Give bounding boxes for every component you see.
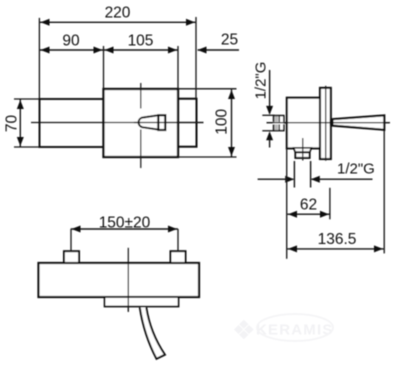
center line through handle	[333, 122, 390, 124]
watermark logo diamonds	[234, 320, 254, 339]
dimension 220 line	[39, 21, 196, 23]
arrow down at connector top	[266, 106, 273, 115]
outlet extension line left	[293, 161, 295, 188]
left nut	[64, 251, 79, 264]
extension line body-left down	[286, 149, 288, 259]
spout rect	[40, 99, 104, 147]
dimension 90 line	[39, 49, 103, 51]
connector top extension line	[262, 114, 274, 116]
arrow 100 top	[228, 90, 235, 99]
arrow 150 right	[168, 226, 177, 233]
extension line 70 bottom	[14, 146, 39, 148]
svg-text:136.5: 136.5	[318, 231, 357, 248]
arrow 90 right	[94, 47, 103, 54]
svg-text:1/2"G: 1/2"G	[337, 160, 375, 177]
dimension 136.5 line	[287, 248, 384, 250]
svg-text:150±20: 150±20	[99, 215, 151, 232]
dim line 1/2G bottom right segment	[312, 178, 373, 180]
handle front cone	[139, 115, 159, 129]
center line over handle	[134, 122, 204, 124]
handle side wedge	[333, 115, 385, 129]
wall bar rect	[39, 263, 200, 297]
arrow 100 bottom	[228, 147, 235, 156]
extension line right of 220	[195, 17, 197, 99]
arrow 220 right	[186, 19, 195, 26]
extension line handle-tip down	[383, 131, 385, 254]
arrow 150 left	[72, 226, 81, 233]
extension line left of 220/90	[38, 18, 40, 99]
outlet extension line right	[310, 161, 312, 188]
dim line 1/2G bottom left segment	[258, 178, 294, 180]
svg-text:100: 100	[214, 108, 231, 134]
arrow 220 left	[41, 19, 50, 26]
arrow 70 bottom	[17, 137, 24, 146]
threaded connector	[273, 116, 284, 131]
right part rect	[178, 99, 197, 147]
vertical center line lower segment	[140, 130, 142, 169]
center line through bar	[127, 263, 129, 312]
right nut	[171, 251, 186, 264]
arrow 105 left	[105, 47, 114, 54]
svg-text:25: 25	[221, 32, 238, 49]
arrow 136.5 left	[288, 245, 297, 252]
arrow 25 left	[198, 47, 207, 54]
handle stub	[331, 120, 334, 125]
shower hose	[140, 308, 165, 359]
arrow 62 left	[288, 211, 297, 218]
horizontal center line side view	[267, 122, 390, 124]
arrow 70 top	[17, 100, 24, 109]
arrow left at outlet right	[311, 176, 320, 183]
vertical center line upper segment	[140, 83, 142, 109]
arrow up at connector bottom	[266, 131, 273, 140]
watermark swoosh ellipse	[257, 314, 333, 341]
wall flange rect	[320, 88, 331, 159]
vertical center line bottom view	[127, 248, 129, 312]
arrow 90 left	[41, 47, 50, 54]
aerator lower rect	[295, 152, 309, 158]
body rect	[104, 89, 179, 157]
connector bottom extension line	[262, 130, 274, 132]
dimension 62 line	[287, 213, 330, 215]
svg-text:220: 220	[105, 5, 131, 22]
lower plate	[105, 297, 179, 307]
handle front knob	[158, 115, 165, 130]
center line through connector	[267, 122, 391, 124]
extension line body-left top	[103, 46, 105, 89]
arrow 105 right	[168, 47, 177, 54]
arrow 62 right	[320, 211, 329, 218]
arrow right at outlet left	[285, 176, 294, 183]
dimension 25 line	[198, 49, 240, 51]
leader shaft below up arrow	[269, 140, 271, 148]
aerator center line	[302, 138, 304, 161]
leader line down arrow 1/2G	[269, 70, 271, 114]
svg-text:70: 70	[4, 115, 21, 133]
dimension 70 line	[19, 99, 21, 147]
extension line flange-right down	[329, 188, 331, 220]
extension line 100 bottom	[178, 156, 237, 158]
aerator collar	[294, 148, 312, 153]
svg-text:90: 90	[62, 33, 80, 50]
extension line 150 right	[177, 229, 179, 251]
side body rect	[287, 98, 320, 149]
arrow 136.5 right	[374, 245, 383, 252]
extension line 100 top	[178, 88, 237, 90]
svg-text:105: 105	[128, 33, 154, 50]
dimension 105 line	[104, 49, 179, 51]
dimension 150 line	[71, 228, 178, 230]
extension line body-right top	[177, 46, 179, 89]
extension line 150 left	[70, 229, 72, 251]
svg-text:1/2"G: 1/2"G	[253, 62, 270, 100]
horizontal center line	[31, 122, 204, 124]
svg-text:62: 62	[300, 197, 317, 214]
dimension 100 line	[231, 89, 233, 157]
extension line 70 top	[14, 98, 39, 100]
flange center line	[325, 86, 327, 161]
